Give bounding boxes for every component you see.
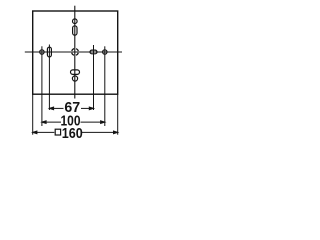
dim 67 line right: [81, 107, 94, 109]
left vertical slot: [47, 47, 51, 57]
extension line right edge: [117, 94, 119, 135]
lower circle: [72, 76, 77, 81]
dim 160 line left: [33, 131, 55, 133]
dim 100 line left: [42, 121, 61, 123]
dim 100 line right: [81, 121, 105, 123]
lower horizontal slot: [71, 70, 80, 75]
extension line left slot: [48, 45, 50, 111]
extension line right slot: [93, 45, 95, 110]
dim 67 line left: [33, 107, 118, 134]
top vertical slot: [73, 26, 77, 35]
vertical centerline: [74, 6, 76, 99]
right circle hole: [103, 50, 107, 54]
square symbol for 160: [55, 129, 60, 135]
extension line right circle: [104, 46, 106, 126]
extension line left circle: [41, 46, 43, 126]
center dashed circle: [72, 49, 79, 56]
plate outline: [33, 11, 118, 94]
right horizontal slot: [90, 50, 97, 54]
svg-text:160: 160: [62, 125, 83, 142]
top hole circle: [73, 19, 78, 24]
horizontal centerline: [25, 51, 122, 53]
dim 160 line right: [82, 131, 118, 133]
left circle hole: [40, 50, 44, 54]
extension line left edge: [32, 94, 34, 135]
